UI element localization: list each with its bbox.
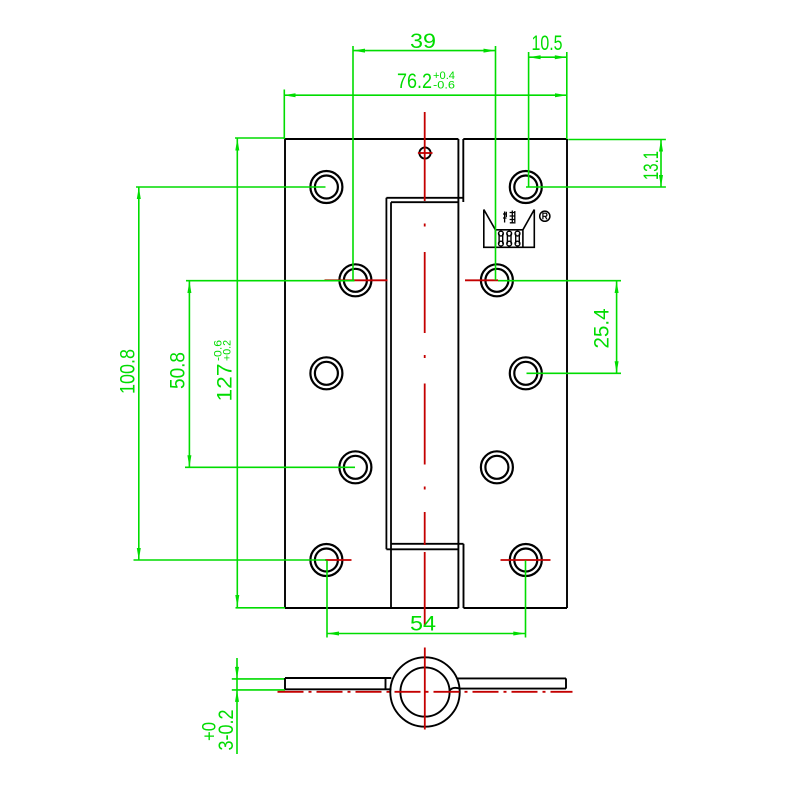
bottom view leaf-to-knuckle transition <box>450 688 460 691</box>
svg-text:76.2: 76.2 <box>397 70 432 93</box>
screw hole row4 left <box>339 451 371 483</box>
svg-text:10.5: 10.5 <box>532 32 563 55</box>
logo registered mark <box>540 211 550 221</box>
bottom view horizontal center line <box>278 691 573 693</box>
bottom view knuckle outer circle <box>390 657 459 726</box>
red cross tick of pin hole <box>418 152 433 154</box>
slot edge top segment <box>462 139 464 202</box>
spring channel left inner wall <box>390 202 392 608</box>
dimension 50.8 <box>185 281 355 468</box>
logo chinese characters <box>503 211 516 224</box>
red center line vertical (pin axis) <box>424 112 426 627</box>
svg-text:127: 127 <box>214 364 237 402</box>
svg-text:50.8: 50.8 <box>167 352 190 389</box>
screw hole row3 right <box>510 357 542 389</box>
bottom view vertical center line <box>424 648 426 730</box>
dimension 13.1 <box>526 140 666 188</box>
dimension 54 <box>327 560 526 637</box>
bottom view left leaf <box>285 678 391 689</box>
dimension 3 +0 -0.2 thickness <box>232 658 285 754</box>
hinge left leaf outline <box>285 139 458 608</box>
red center tick row2 right <box>465 279 498 281</box>
logo coil 2 <box>507 231 512 246</box>
screw hole row3 left <box>310 357 342 389</box>
dimension 39 <box>353 46 496 280</box>
trademark logo bucket <box>484 210 535 248</box>
svg-text:13.1: 13.1 <box>640 151 663 180</box>
screw hole row5 right <box>510 544 542 576</box>
svg-text:-0.6: -0.6 <box>213 340 225 361</box>
dimension 76.2 with tolerance <box>284 90 568 140</box>
dimension 10.5 <box>529 52 567 187</box>
screw hole row5 left <box>310 544 342 576</box>
bottom view knuckle inner circle <box>400 667 449 716</box>
red center tick row2 left <box>325 279 388 281</box>
bottom view right leaf <box>457 678 566 688</box>
spring channel left outer wall <box>385 198 387 550</box>
logo coil 3 <box>515 231 520 246</box>
svg-text:39: 39 <box>410 30 436 53</box>
red center tick row5 left <box>325 559 352 561</box>
dimension 127 with tolerance <box>235 138 285 608</box>
slot edge full height <box>457 139 459 608</box>
screw hole row1 left <box>310 171 342 203</box>
slot edge bottom segment <box>463 544 465 608</box>
dimension 100.8 <box>134 187 327 560</box>
hinge right leaf outline <box>463 139 567 608</box>
red center tick row5 right <box>501 559 551 561</box>
spring channel top edges <box>386 198 463 202</box>
spring channel bottom edges <box>386 544 463 550</box>
logo coil 1 <box>499 231 504 246</box>
screw hole row1 right <box>510 171 542 203</box>
svg-text:54: 54 <box>410 613 436 636</box>
svg-text:25.4: 25.4 <box>591 308 614 348</box>
svg-text:+0: +0 <box>200 722 221 741</box>
dimension 25.4 <box>498 281 621 374</box>
svg-text:100.8: 100.8 <box>117 349 140 394</box>
screw hole row2 left <box>339 264 371 296</box>
screw hole row4 right <box>481 451 513 483</box>
pin hole at top center <box>419 147 430 158</box>
svg-text:-0.6: -0.6 <box>433 80 455 92</box>
screw hole row2 right <box>481 264 513 296</box>
